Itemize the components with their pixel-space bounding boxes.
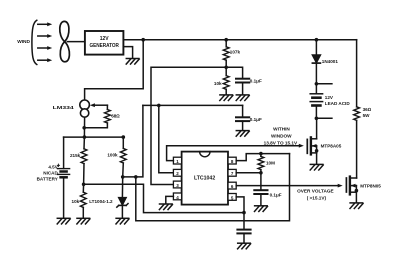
ground (pin 4) [159, 204, 172, 210]
svg-text:68Ω: 68Ω [111, 114, 120, 119]
node dot: battery - [315, 117, 319, 121]
svg-text:MTP8N05: MTP8N05 [360, 183, 381, 188]
wire: generator output to top rail [123, 39, 143, 41]
ground (pin5 cap) [238, 243, 251, 249]
arrow into MTP8A05 gate [299, 144, 304, 148]
pin 1 box [173, 157, 181, 164]
node dot: divider tap [224, 66, 228, 70]
svg-text:36Ω: 36Ω [363, 107, 372, 112]
wire: LM334 bottom to left rail [83, 117, 85, 137]
svg-text:10k: 10k [72, 199, 80, 204]
node dot: LM334/68ohm return [82, 126, 86, 130]
wire: rail to battery [63, 137, 65, 168]
wire: pin2 column [159, 105, 174, 172]
propeller (wind turbine blades) [60, 21, 70, 61]
battery 4.5V NICAD [57, 164, 69, 177]
wire: divider tap to pin3 column [151, 67, 226, 184]
node dot: 100k/LT1004 reference [121, 175, 125, 179]
svg-text:13.8V TO 15.1V: 13.8V TO 15.1V [264, 140, 298, 145]
LM334 set arrow [90, 103, 108, 107]
ground (pin7 cap) [255, 206, 268, 212]
node dot: pin5/cap junction [242, 211, 246, 215]
wind arrow 4 [38, 58, 52, 62]
node: WITHIN WINDOW label [264, 126, 298, 145]
wind arrow 3 [38, 46, 52, 50]
wire: rail into 215k [83, 137, 85, 149]
wire: zener to ground [121, 205, 123, 217]
battery 12V LEAD ACID [310, 84, 322, 119]
wire: left reference rail [64, 136, 124, 138]
svg-text:100k: 100k [107, 153, 118, 158]
wire: pin 4 to ground [166, 196, 174, 203]
svg-text:4.5V: 4.5V [48, 165, 58, 170]
transistor Q2 MTP8N05 [346, 177, 358, 203]
node dot: reference to pin8 column [134, 175, 138, 179]
pin 6 box [228, 182, 236, 189]
svg-text:GENERATOR: GENERATOR [89, 43, 119, 49]
svg-text:1N4001: 1N4001 [322, 59, 339, 64]
capacitor 0.1uF (divider) [226, 67, 249, 94]
wire: pin 7 to 10M bottom [236, 172, 261, 174]
diode 1N4001 [312, 40, 320, 84]
LM334 current source (two circles) [80, 100, 90, 117]
capacitor (pin 5 bypass) [237, 213, 250, 243]
node dot: battery + [315, 82, 319, 86]
svg-text:215k: 215k [70, 153, 81, 158]
op-amp U1 LTC1042 body [182, 152, 228, 205]
wire: rail down to LM334 feed [85, 40, 144, 100]
wire: pin2 feed line to bypass cap [143, 104, 243, 106]
wire: pin 6 to MTP8N05 gate (over voltage) [236, 185, 338, 187]
pin 8 box [228, 157, 236, 164]
wire: pin 1 up and over to MTP8A05 gate [167, 146, 300, 161]
resistor 68 ohm [105, 110, 111, 123]
wire: 215k tap right then down to pin5 route [84, 184, 244, 212]
svg-text:0.1μF: 0.1μF [250, 117, 262, 122]
svg-text:LM334: LM334 [53, 105, 74, 111]
wire: reference node down to zener [121, 177, 123, 198]
pin 7 box [228, 169, 236, 176]
svg-text:( >15.1V): ( >15.1V) [307, 195, 327, 200]
zener LT1004-1.2 [117, 198, 128, 208]
node dot: pin2 column tee [157, 104, 161, 108]
wire: battery to ground [63, 177, 65, 217]
wind arrow 1 [38, 22, 52, 26]
svg-text:NICAD: NICAD [43, 171, 58, 176]
wire: pin8 long route (down, under IC, up right side) [136, 154, 290, 221]
wire: propeller to generator [67, 41, 85, 43]
wire: top supply rail [143, 39, 356, 41]
wire: pin 8 to hysteresis line [236, 154, 289, 161]
wire: 100k to reference node [122, 163, 125, 177]
pin 3 box [173, 181, 181, 188]
svg-text:OVER VOLTAGE: OVER VOLTAGE [297, 188, 334, 193]
node dot: 215k/10k tap [82, 183, 86, 187]
node dot: 10M top [259, 152, 263, 156]
svg-text:12V: 12V [325, 95, 334, 100]
resistor 10M [258, 154, 264, 173]
ground (Q2 source) [350, 203, 363, 209]
resistor 107k [223, 40, 229, 68]
svg-text:12V: 12V [100, 36, 110, 42]
arrow into MTP8N05 gate [338, 184, 343, 188]
ground (generator) [126, 59, 139, 65]
wire: rail into 100k [122, 137, 124, 148]
resistor 10k (lower left) [80, 184, 86, 217]
svg-text:10k: 10k [214, 81, 222, 86]
node dot: rail at x=143 [141, 38, 145, 42]
pin 5 box [228, 194, 236, 201]
node dot: pin7/10M/cap [259, 171, 263, 175]
node dot: rail/215k [83, 135, 87, 139]
svg-text:WIND: WIND [17, 39, 30, 45]
resistor 100k [120, 148, 126, 163]
transistor Q1 MTP8A05 [307, 118, 318, 164]
svg-text:5W: 5W [363, 113, 371, 118]
svg-text:0.1μF: 0.1μF [250, 79, 262, 84]
wire: generator ground stub [123, 47, 132, 58]
node dot: rail at 107k [224, 38, 228, 42]
svg-text:LTC1042: LTC1042 [194, 176, 215, 182]
svg-text:WINDOW: WINDOW [271, 133, 292, 138]
svg-text:LEAD ACID: LEAD ACID [325, 101, 351, 106]
node dot: rail at 1N4001 [315, 38, 319, 42]
capacitor 0.1uF (pin 7) [254, 173, 267, 205]
svg-text:107k: 107k [230, 50, 241, 55]
ground (10k divider) [220, 95, 233, 101]
pin 2 box [173, 169, 181, 176]
wire: pin 5 down to 215k tap route [236, 197, 244, 213]
resistor 36 ohm 5W [354, 40, 360, 178]
svg-text:MTP8A05: MTP8A05 [321, 144, 342, 149]
ground (10k lower left) [77, 218, 90, 224]
svg-text:10M: 10M [266, 160, 275, 165]
svg-text:0.1μF: 0.1μF [270, 192, 282, 197]
wind arrow 2 [38, 34, 52, 38]
generator box 12V GENERATOR [85, 31, 124, 55]
wire: reference node right then up to pin2 feed line [123, 105, 143, 176]
ground (divider cap) [236, 95, 249, 101]
wire: battery + stub [316, 83, 332, 85]
wire: 68 ohm loop bottom [84, 123, 107, 128]
capacitor 0.1uF (mid) [236, 105, 249, 130]
svg-text:LT1004-1.2: LT1004-1.2 [89, 199, 113, 204]
resistor 215k [81, 149, 87, 164]
node dot: rail/100k [122, 135, 126, 139]
svg-text:BATTERY: BATTERY [37, 176, 58, 181]
brace for wind arrows [32, 20, 37, 64]
wire: 215k to tap [83, 164, 85, 185]
resistor 10k (divider) [223, 67, 229, 94]
ground (Q1 source) [310, 164, 323, 170]
pin 4 box [173, 193, 181, 200]
node: OVER VOLTAGE label [297, 188, 334, 200]
wire: battery - stub [316, 117, 332, 119]
ground (mid cap) [236, 131, 249, 137]
ground (battery) [57, 218, 70, 224]
wire: 68 ohm loop top [106, 105, 108, 109]
svg-text:WITHIN: WITHIN [273, 126, 290, 131]
ground (LT1004) [116, 218, 129, 224]
